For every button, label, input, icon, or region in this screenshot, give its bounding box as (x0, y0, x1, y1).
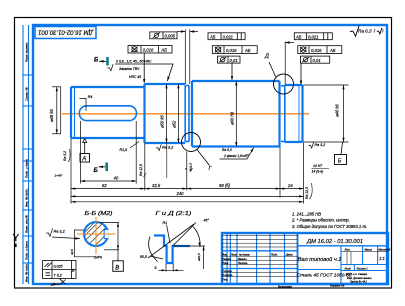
groove 2 between C and D (281, 86, 285, 142)
datum A flag under section B (83, 139, 87, 143)
svg-text:0,016: 0,016 (311, 48, 322, 53)
svg-text:0,025: 0,025 (54, 264, 63, 268)
svg-text:R1,6: R1,6 (120, 148, 128, 152)
svg-text:0,01: 0,01 (313, 58, 321, 63)
svg-text:): ) (381, 29, 384, 33)
section B-B hatch (68, 196, 136, 272)
svg-text:А: А (81, 157, 86, 163)
title block lit/massa/masshtab zone (298, 246, 389, 284)
detail width dim 6 (159, 264, 184, 272)
svg-text:Д: Д (264, 54, 269, 60)
svg-text:ДМ 16.02-01.30.001: ДМ 16.02-01.30.001 (38, 29, 94, 35)
svg-text:14Р9: 14Р9 (94, 256, 102, 260)
svg-text:Вал типовой ч.1: Вал типовой ч.1 (298, 256, 342, 263)
svg-text:2 фаски 1,6×45°: 2 фаски 1,6×45° (223, 154, 249, 158)
svg-text:Ra 3,2: Ra 3,2 (162, 145, 174, 149)
GD&T frame group 3: row 3 (300, 56, 329, 63)
svg-text:Масса: Масса (365, 249, 373, 252)
keyway slot on section A (79, 106, 136, 121)
main drawing frame (blue) (33, 25, 387, 284)
svg-text:АБ: АБ (329, 48, 336, 53)
svg-text:Т.контр.: Т.контр. (222, 270, 232, 273)
svg-text:Ra 3,2: Ra 3,2 (63, 151, 67, 161)
svg-text:Петров: Петров (238, 262, 248, 265)
svg-text:⌀52: ⌀52 (172, 120, 177, 128)
svg-text:Ra1,6: Ra1,6 (189, 163, 193, 171)
svg-text:Взам. инв.№: Взам. инв.№ (25, 215, 29, 233)
svg-text:Изм: Изм (222, 254, 227, 257)
svg-text:Закалка ТВЧ: Закалка ТВЧ (119, 67, 140, 71)
left margin column boxes (23, 25, 33, 284)
shaft section B (145, 84, 186, 143)
svg-text:0,016: 0,016 (143, 48, 154, 53)
svg-text:Ra 3,2: Ra 3,2 (54, 229, 66, 233)
svg-text:45°: 45° (204, 219, 210, 223)
svg-text:Ra 6,3: Ra 6,3 (358, 28, 372, 33)
detail break lines (148, 223, 205, 262)
svg-text:Б: Б (338, 159, 342, 165)
svg-text:Инв. № подл.: Инв. № подл. (25, 263, 29, 282)
svg-text:В: В (115, 265, 119, 271)
GD&T frame group 3: row 2 (298, 46, 342, 54)
section B-B orange centerlines (77, 233, 116, 235)
svg-text:98 (б): 98 (б) (219, 183, 231, 188)
svg-text:Справ. №: Справ. № (25, 87, 29, 101)
leader from group 2 to shaft (231, 63, 233, 79)
svg-text:1×45°: 1×45° (55, 174, 64, 178)
keyway depth dim left of B-B (74, 230, 96, 257)
dim 40 over keyway (81, 121, 137, 184)
chain dim row: 82 / 32.5 / (88) / 24 (71, 139, 304, 204)
diameter dim inside section C (235, 81, 237, 147)
svg-text:32,5: 32,5 (152, 183, 161, 188)
svg-text:Т 0,2: Т 0,2 (54, 273, 62, 277)
svg-text:h 0,8...1,0; 45...50 HRC: h 0,8...1,0; 45...50 HRC (116, 60, 152, 64)
svg-text:Ra 6,3: Ra 6,3 (222, 148, 232, 152)
svg-text:40: 40 (114, 176, 119, 181)
svg-text:Лист: Лист (344, 267, 351, 270)
svg-text:82: 82 (102, 183, 107, 188)
svg-text:Листов 1: Листов 1 (356, 267, 369, 270)
svg-text:1:1: 1:1 (379, 256, 385, 261)
diameter dim right of section D (304, 85, 349, 142)
svg-text:Дата: Дата (285, 254, 293, 257)
top-left repeat designation stamp (35, 27, 96, 39)
svg-text:14 Н7: 14 Н7 (313, 164, 322, 168)
shaft section C (largest) (192, 81, 280, 147)
section cut mark B bottom (105, 163, 108, 172)
svg-text:Н.контр.: Н.контр. (222, 274, 233, 277)
svg-text:Инв. № дубл.: Инв. № дубл. (25, 188, 29, 207)
svg-text:R4: R4 (88, 95, 93, 99)
svg-text:Б: Б (94, 168, 99, 174)
svg-text:Подп. и дата: Подп. и дата (25, 241, 29, 260)
svg-text:Ra 3,2: Ra 3,2 (315, 143, 326, 147)
svg-text:R1: R1 (163, 221, 168, 225)
title block left thin rows (222, 236, 298, 277)
detail depth dim (203, 246, 205, 269)
svg-text:Y: Y (13, 233, 20, 244)
svg-text:⌀60 h9: ⌀60 h9 (230, 111, 235, 125)
leader with X from GD&T table (51, 279, 63, 286)
section B-B keyway notch (104, 229, 108, 238)
title block tiny texts left (222, 254, 293, 282)
svg-text:Иванов: Иванов (238, 258, 247, 261)
svg-text:Ra 12,5: Ra 12,5 (139, 164, 143, 176)
svg-text:0,01: 0,01 (230, 58, 238, 63)
title block header blue rows (222, 250, 298, 252)
svg-text:Г: Г (209, 166, 213, 172)
svg-text:3. Общие допуски по ГОСТ 30893: 3. Общие допуски по ГОСТ 30893.1-m. (292, 224, 367, 229)
GD&T frame group 1 (over section B): cylindricity (150, 32, 177, 39)
top-right general roughness mark (350, 26, 382, 37)
svg-text:АБ: АБ (209, 35, 216, 40)
leader from group 1 to step (143, 53, 145, 83)
roughness callout right end face (309, 142, 314, 148)
svg-text:АБ: АБ (295, 35, 302, 40)
GD&T frame group 3 (over section D): row 1 (294, 33, 332, 40)
title block left grid verticals (227, 233, 285, 284)
section A chamfer line (74, 87, 76, 138)
svg-text:HRC 45: HRC 45 (129, 75, 141, 79)
svg-text:Копировал: Копировал (278, 284, 292, 288)
svg-text:Ra 12,5: Ra 12,5 (305, 187, 309, 199)
detail circle D at groove 2 top (274, 74, 294, 94)
svg-text:Перв. примен.: Перв. примен. (25, 42, 29, 62)
svg-text:Сталь 45 ГОСТ 1050-88: Сталь 45 ГОСТ 1050-88 (297, 273, 352, 279)
section cut mark B top (106, 57, 109, 66)
overall length dim (71, 201, 304, 203)
diameter dim at left end (52, 87, 61, 134)
groove 1 between B and C (185, 86, 189, 142)
svg-text:0,016: 0,016 (226, 48, 237, 53)
svg-text:3: 3 (184, 168, 188, 170)
svg-text:Формат А3: Формат А3 (330, 283, 345, 287)
svg-text:ДМ 16.02 - 01.30.001: ДМ 16.02 - 01.30.001 (306, 239, 363, 245)
svg-text:Б-Б (М2): Б-Б (М2) (85, 211, 113, 217)
svg-text:6: 6 (155, 266, 157, 270)
section B-B keyway notch white cut (104, 230, 108, 238)
svg-text:2. * Размеры обеспеч. инстр.: 2. * Размеры обеспеч. инстр. (291, 217, 350, 222)
svg-text:БГТУ, г.о. Самара: БГТУ, г.о. Самара (346, 273, 368, 276)
svg-text:Подп.: Подп. (271, 254, 278, 257)
GD&T table at B-B (43, 261, 77, 279)
datum V flag under B-B (113, 261, 124, 272)
svg-text:0,005: 0,005 (165, 34, 176, 39)
step face A-B (143, 84, 145, 143)
GD&T frame group 2: row 2 (212, 46, 257, 54)
svg-text:Лист: Лист (230, 254, 237, 257)
leader from group 3 to shaft (300, 63, 302, 84)
svg-text:⌀52,5: ⌀52,5 (197, 253, 201, 261)
svg-text:⌀48 k6: ⌀48 k6 (49, 109, 54, 122)
title block organization (346, 273, 372, 283)
diameter dims inside section B (166, 84, 168, 143)
svg-text:Лит.: Лит. (344, 249, 351, 252)
orange centerline of shaft (62, 113, 309, 115)
svg-text:№ докум.: № докум. (239, 254, 250, 257)
svg-text:R0,5: R0,5 (140, 255, 147, 259)
svg-text:Разраб.: Разраб. (222, 258, 231, 261)
svg-text:0,021: 0,021 (308, 35, 318, 40)
roughness with leader to B-B keyway (46, 228, 53, 236)
roughness on section B bottom (156, 145, 161, 151)
dim 240 (71, 195, 304, 197)
svg-text:АБ: АБ (161, 48, 168, 53)
svg-text:АБ: АБ (244, 48, 251, 53)
svg-text:(: ( (374, 29, 376, 33)
detail circle G at groove 1 bottom (182, 133, 201, 152)
title block designation cell (298, 245, 389, 247)
svg-text:Б: Б (94, 58, 99, 64)
title block outer (222, 233, 388, 284)
svg-text:24: 24 (287, 183, 293, 188)
svg-text:42,5: 42,5 (70, 249, 74, 255)
GD&T frame group 2: row 3 (218, 56, 241, 63)
datum B flag under right dim (341, 142, 343, 155)
svg-text:Утв.: Утв. (222, 278, 228, 281)
svg-text:0,021: 0,021 (223, 35, 233, 40)
shaft section D (right journal) (285, 85, 303, 142)
detail groove profile (blue) (154, 236, 190, 264)
svg-text:Группа Вс 4А1: Группа Вс 4А1 (350, 280, 367, 283)
section B-B circle (84, 222, 108, 246)
svg-text:⌀40 k6: ⌀40 k6 (335, 104, 340, 117)
GD&T frame group 2 (over section C): row 1 (208, 33, 245, 40)
svg-text:Г и Д (2:1): Г и Д (2:1) (156, 211, 192, 217)
shaft section A (left, with keyway) (71, 87, 145, 138)
svg-text:Масштаб: Масштаб (379, 249, 391, 252)
section D chamfer line (298, 85, 300, 142)
svg-text:⌀50 k6: ⌀50 k6 (160, 115, 165, 128)
left margin column rotated labels (25, 42, 29, 282)
svg-text:Пров.: Пров. (222, 262, 229, 265)
svg-text:14 (а-в): 14 (а-в) (312, 170, 324, 174)
svg-text:Подп. и дата: Подп. и дата (25, 159, 29, 178)
groove 1 width dim above shaft (177, 30, 198, 85)
keyway width dim in B-B (100, 223, 119, 259)
svg-text:1. 241...285 НВ: 1. 241...285 НВ (292, 211, 321, 216)
GD&T frame group 1: runout row (128, 46, 172, 54)
groove 2 width dim mark (284, 42, 286, 85)
svg-text:240: 240 (176, 191, 185, 196)
